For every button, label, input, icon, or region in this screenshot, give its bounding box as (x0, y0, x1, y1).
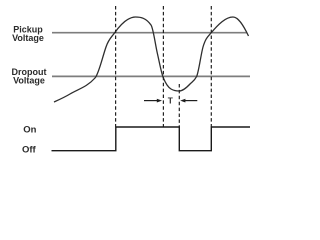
relay output trace (On/Off pulse) (52, 127, 251, 151)
dashed marker at relay release (after delay T) (178, 84, 180, 127)
delay arrow left (144, 100, 158, 102)
dashed marker at second pickup crossing (210, 6, 212, 127)
svg-text:On: On (23, 124, 36, 135)
svg-text:Voltage: Voltage (13, 76, 45, 86)
dashed marker at dropout crossing (162, 6, 164, 127)
svg-text:T: T (168, 96, 174, 106)
dashed marker at first pickup crossing (115, 6, 117, 127)
dropout voltage threshold line (52, 75, 250, 77)
pickup voltage threshold line (52, 32, 247, 34)
svg-text:Voltage: Voltage (12, 33, 44, 43)
svg-text:Off: Off (22, 145, 37, 156)
input voltage waveform (54, 17, 249, 102)
delay arrow right (180, 99, 185, 103)
